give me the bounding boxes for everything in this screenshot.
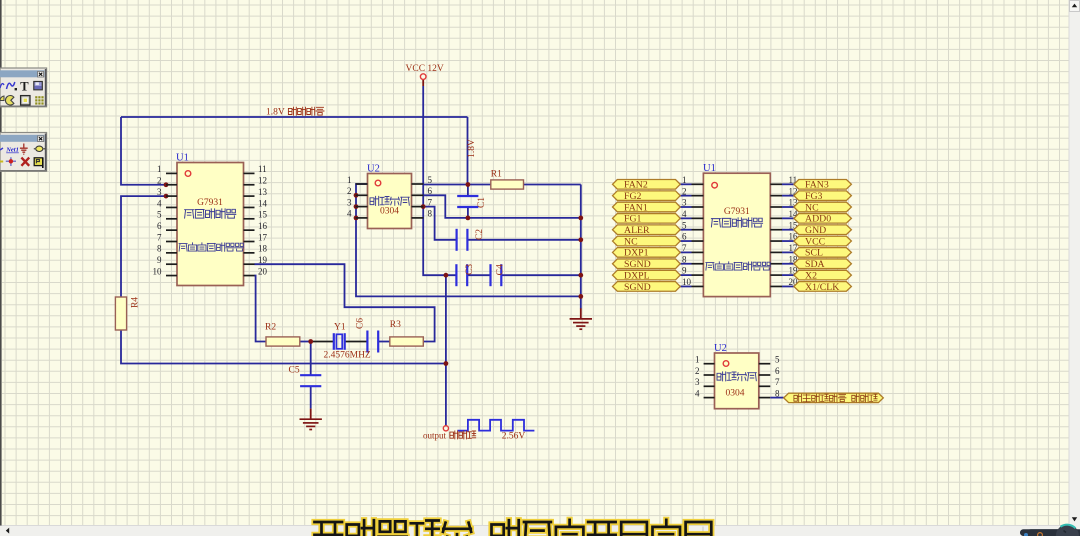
svg-text:1: 1 (347, 175, 352, 185)
svg-text:5: 5 (775, 355, 780, 365)
svg-text:R4: R4 (131, 297, 141, 308)
svg-text:2: 2 (157, 176, 162, 186)
svg-text:U2: U2 (367, 164, 380, 175)
svg-text:X1/CLK: X1/CLK (805, 282, 839, 293)
svg-text:11: 11 (258, 164, 267, 174)
svg-text:G7931: G7931 (724, 207, 750, 217)
svg-text:13: 13 (258, 187, 268, 197)
svg-text:5: 5 (157, 210, 162, 220)
svg-text:FAN1: FAN1 (624, 202, 648, 213)
svg-text:4: 4 (347, 209, 352, 219)
svg-text:19: 19 (258, 255, 268, 265)
svg-text:1: 1 (157, 164, 162, 174)
svg-text:7: 7 (775, 377, 780, 387)
svg-text:X2: X2 (805, 270, 817, 281)
svg-text:T: T (20, 80, 29, 94)
svg-text:U2: U2 (714, 343, 727, 354)
svg-text:20: 20 (258, 266, 268, 276)
svg-text:3: 3 (682, 198, 687, 208)
svg-text:5: 5 (428, 175, 433, 185)
svg-text:9: 9 (157, 255, 162, 265)
svg-text:3: 3 (157, 187, 162, 197)
svg-text:3: 3 (695, 377, 700, 387)
svg-text:FG3: FG3 (805, 191, 823, 202)
svg-text:3: 3 (347, 197, 352, 207)
svg-text:0304: 0304 (726, 388, 745, 398)
svg-text:C5: C5 (289, 366, 300, 376)
svg-text:2: 2 (695, 366, 700, 376)
svg-text:SGND: SGND (624, 259, 651, 270)
svg-text:2: 2 (347, 186, 352, 196)
svg-text:5: 5 (682, 220, 687, 230)
svg-text:SCL: SCL (805, 248, 823, 259)
svg-text:Net1: Net1 (5, 147, 19, 154)
svg-text:VCC 12V: VCC 12V (406, 64, 444, 74)
svg-text:1.8V: 1.8V (467, 139, 477, 158)
svg-text:R1: R1 (491, 170, 502, 180)
svg-text:6: 6 (428, 186, 433, 196)
svg-text:16: 16 (258, 221, 268, 231)
svg-text:FAN3: FAN3 (805, 180, 829, 191)
svg-text:1: 1 (682, 175, 687, 185)
svg-text:2: 2 (682, 186, 687, 196)
svg-text:7: 7 (157, 232, 162, 242)
svg-text:C4: C4 (495, 264, 505, 275)
svg-text:NC: NC (805, 202, 819, 213)
svg-text:U1: U1 (703, 163, 716, 174)
svg-text:C1: C1 (477, 197, 487, 208)
svg-text:VCC: VCC (805, 236, 825, 247)
svg-text:15: 15 (258, 210, 268, 220)
svg-text:SDA: SDA (805, 259, 825, 270)
svg-text:C2: C2 (475, 229, 485, 240)
svg-text:FG2: FG2 (624, 191, 642, 202)
svg-text:7: 7 (682, 243, 687, 253)
svg-text:6: 6 (157, 221, 162, 231)
svg-text:C3: C3 (465, 264, 475, 275)
svg-text:NC: NC (624, 236, 638, 247)
svg-text:DXPL: DXPL (624, 270, 650, 281)
svg-text:DXP1: DXP1 (624, 248, 649, 259)
svg-text:SGND: SGND (624, 282, 651, 293)
svg-text:6: 6 (775, 366, 780, 376)
svg-text:12: 12 (258, 176, 267, 186)
svg-text:2.56V: 2.56V (502, 432, 526, 442)
svg-text:18: 18 (258, 244, 268, 254)
svg-text:17: 17 (258, 232, 268, 242)
svg-text:4: 4 (682, 209, 687, 219)
svg-text:Y1: Y1 (334, 323, 346, 333)
svg-text:ADD0: ADD0 (805, 214, 831, 225)
svg-text:9: 9 (682, 266, 687, 276)
svg-text:C6: C6 (355, 318, 365, 329)
svg-text:8: 8 (682, 254, 687, 264)
svg-text:6: 6 (682, 232, 687, 242)
svg-text:4: 4 (695, 388, 700, 398)
svg-text:output: output (423, 431, 447, 441)
svg-text:FG1: FG1 (624, 214, 642, 225)
svg-text:1: 1 (695, 355, 700, 365)
svg-text:0304: 0304 (380, 207, 399, 217)
svg-text:2.4576MHZ: 2.4576MHZ (324, 351, 371, 361)
svg-text:GND: GND (805, 225, 826, 236)
svg-text:8: 8 (428, 209, 433, 219)
svg-text:10: 10 (153, 266, 163, 276)
svg-text:8: 8 (157, 244, 162, 254)
svg-text:4: 4 (157, 198, 162, 208)
svg-text:R2: R2 (265, 323, 276, 333)
svg-text:U1: U1 (176, 153, 189, 164)
svg-text:ALER: ALER (624, 225, 650, 236)
svg-text:14: 14 (258, 198, 268, 208)
svg-text:7: 7 (428, 197, 433, 207)
svg-text:G7931: G7931 (197, 198, 223, 208)
svg-text:FAN2: FAN2 (624, 180, 648, 191)
svg-text:1.8V: 1.8V (266, 108, 285, 118)
svg-text:R3: R3 (390, 320, 401, 330)
svg-text:10: 10 (682, 277, 692, 287)
